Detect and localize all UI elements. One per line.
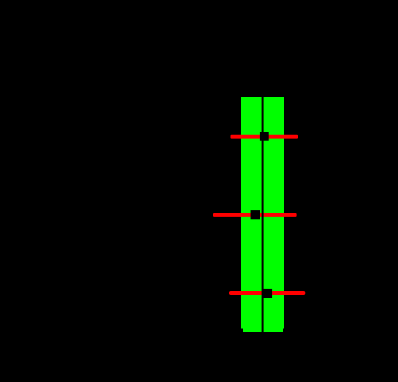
green band outer <box>241 97 284 329</box>
marker square 3 <box>264 289 273 298</box>
error bar 3 <box>231 291 303 295</box>
marker square 2 <box>251 210 260 219</box>
error bar 2 <box>213 213 297 217</box>
error bar 1 <box>231 135 299 139</box>
marker square 1 <box>260 132 269 141</box>
green band inner <box>243 97 283 332</box>
center divider line <box>262 97 264 332</box>
